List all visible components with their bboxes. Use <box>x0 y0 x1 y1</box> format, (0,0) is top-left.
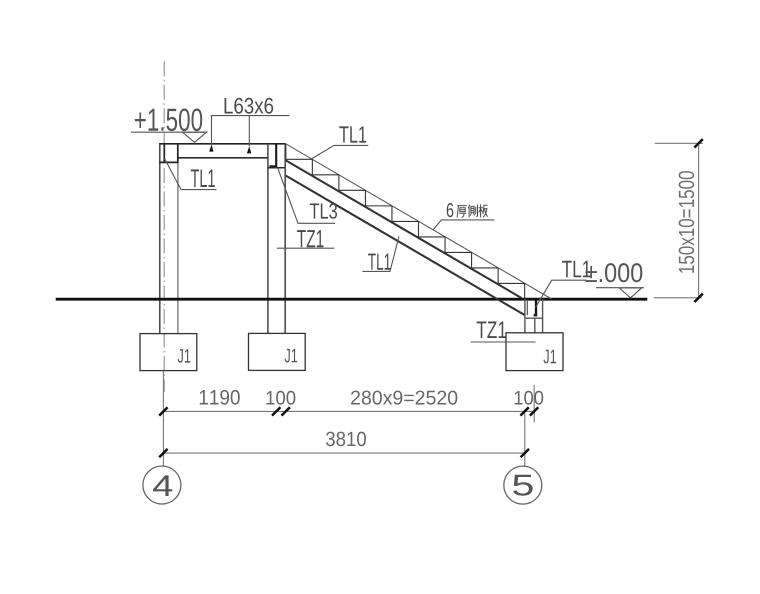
L63x6 arrowhead 2 <box>247 146 251 153</box>
right dimension 150x10=1500 <box>654 143 703 297</box>
glyph 厚 <box>457 206 467 218</box>
ground line <box>56 298 648 301</box>
stair stringer TL1 top line <box>286 160 522 298</box>
stair nosing line <box>286 144 552 299</box>
axis-4 centerline (grid line 4 dash-dot through left column) <box>163 61 165 392</box>
stair stringer TL1 bottom line <box>286 176 525 316</box>
bottom dimension line 2 (3810) <box>163 452 524 454</box>
foundation J1 (middle) <box>249 333 306 370</box>
elevation mark +1.500 <box>131 108 208 142</box>
dimension text 280x9=2520 <box>351 391 457 405</box>
elevation mark ±.000 <box>585 263 644 298</box>
axis bubble 5 <box>504 466 542 504</box>
glyph 侧 <box>468 205 477 218</box>
label TL1 left (platform beam) <box>165 159 217 190</box>
middle column left edge <box>267 144 269 333</box>
stringer end cut line below ground <box>526 300 528 316</box>
platform beam TL1 top line <box>159 143 286 145</box>
left column left edge <box>159 144 161 333</box>
right dimension ticks <box>694 139 702 302</box>
axis bubble 4 <box>143 466 181 504</box>
dimension text 3810 <box>326 432 366 447</box>
label TL1 stair (lower) <box>362 236 399 271</box>
foundation J1 (left) <box>140 334 197 371</box>
right dimension text <box>679 171 695 273</box>
middle column right edge <box>284 144 286 333</box>
left column top connection box <box>159 144 179 162</box>
glyph 板 <box>479 204 488 217</box>
label TL1 bottom right <box>535 261 590 308</box>
TZ1 column below ground (right) <box>525 299 543 333</box>
label TL3 <box>278 169 337 224</box>
foundation J1 (right) <box>506 333 563 371</box>
middle column top connection: L-bracket plate <box>269 144 277 167</box>
middle column top box bottom line <box>268 167 285 169</box>
TZ1 bracket plate <box>535 300 537 317</box>
dimension text 100 (left) <box>267 391 296 405</box>
foundation J1 (right) label text <box>543 350 556 364</box>
dimension text 100 (right) <box>515 391 543 405</box>
stair steps (treads and risers) <box>286 144 525 299</box>
dimension text 1190 <box>200 390 240 405</box>
label 6厚侧板 (6 thick side plate) <box>433 203 495 230</box>
platform beam TL1 bottom line <box>179 157 268 159</box>
foundation J1 (left) label text <box>178 349 191 363</box>
label TL1 top (stair upper) <box>312 126 369 158</box>
label TZ1 bottom right <box>471 321 536 342</box>
foundation J1 (middle) label text <box>285 349 298 363</box>
left column right edge <box>177 162 179 333</box>
dimension tick marks <box>159 407 538 457</box>
L63x6 arrowhead 1 <box>209 144 213 151</box>
bottom dimension line 1 <box>163 371 534 466</box>
label TZ1 middle <box>277 230 335 248</box>
label L63x6 (angle steel) <box>209 98 289 154</box>
